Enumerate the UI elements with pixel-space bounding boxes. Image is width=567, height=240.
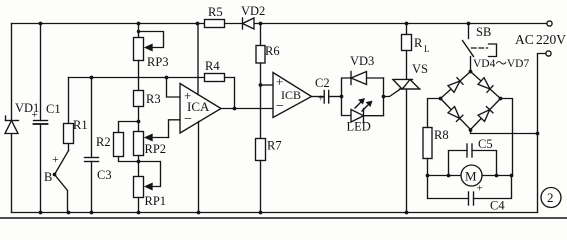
svg-text:SB: SB [476, 25, 491, 39]
svg-text:C5: C5 [478, 137, 493, 151]
svg-text:ICB: ICB [281, 88, 301, 102]
svg-text:C4: C4 [490, 199, 505, 213]
svg-text:LED: LED [347, 120, 371, 134]
svg-text:RP3: RP3 [147, 55, 169, 69]
svg-text:C2: C2 [315, 76, 330, 90]
svg-text:−: − [276, 99, 284, 114]
svg-text:220V: 220V [536, 32, 566, 47]
svg-text:R8: R8 [434, 128, 449, 142]
svg-text:2: 2 [547, 190, 554, 205]
svg-text:+: + [477, 183, 483, 195]
svg-text:VD2: VD2 [241, 4, 265, 18]
svg-text:+: + [276, 74, 283, 89]
svg-text:R5: R5 [208, 5, 223, 19]
svg-text:C1: C1 [46, 102, 61, 116]
svg-text:R2: R2 [96, 135, 111, 149]
svg-text:VS: VS [412, 62, 428, 76]
svg-text:−: − [184, 112, 192, 127]
svg-text:R1: R1 [73, 118, 88, 132]
svg-text:AC: AC [515, 32, 534, 47]
svg-text:B: B [44, 170, 52, 184]
svg-text:R4: R4 [205, 59, 220, 73]
svg-text:RP1: RP1 [145, 194, 167, 208]
svg-text:R: R [414, 36, 423, 50]
svg-text:+: + [318, 94, 324, 105]
svg-text:VD4～VD7: VD4～VD7 [473, 58, 529, 70]
svg-text:R7: R7 [267, 139, 282, 153]
svg-text:C3: C3 [97, 168, 112, 182]
svg-text:R3: R3 [146, 92, 161, 106]
svg-text:+: + [184, 88, 191, 103]
svg-text:+: + [52, 152, 59, 166]
svg-text:L: L [424, 44, 430, 54]
svg-text:R6: R6 [265, 44, 280, 58]
svg-text:M: M [465, 169, 477, 184]
svg-text:VD3: VD3 [350, 54, 374, 68]
svg-text:+: + [32, 109, 38, 121]
svg-text:RP2: RP2 [145, 142, 167, 156]
